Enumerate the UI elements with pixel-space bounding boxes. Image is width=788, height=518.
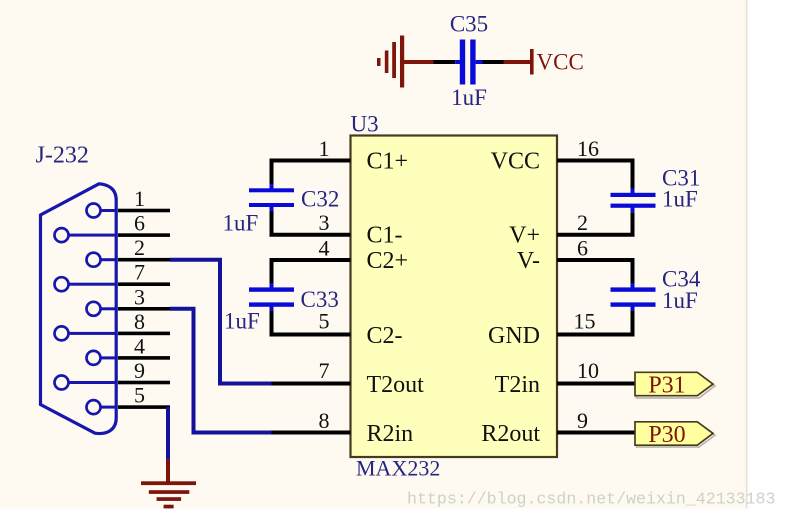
svg-text:R2out: R2out <box>481 421 540 447</box>
connector pin 4 <box>87 333 171 365</box>
svg-text:R2in: R2in <box>367 421 414 447</box>
svg-text:1uF: 1uF <box>224 309 260 334</box>
svg-text:1: 1 <box>134 186 145 211</box>
ground symbol GND (bottom) <box>141 481 196 508</box>
wire pin6 to C34 top <box>557 260 633 284</box>
svg-text:10: 10 <box>577 358 599 383</box>
wire C35 to VCC <box>483 60 504 64</box>
port P30 <box>635 422 715 448</box>
power ground symbol PGND (top left, horizontal) <box>377 36 404 88</box>
pin 15 GND <box>488 309 596 350</box>
svg-text:VCC: VCC <box>491 149 540 175</box>
pin 7 T2out <box>272 358 425 398</box>
svg-text:T2in: T2in <box>495 372 540 398</box>
svg-text:C32: C32 <box>301 187 339 212</box>
svg-text:GND: GND <box>488 323 540 349</box>
capacitor C35 <box>455 40 482 85</box>
connector pin 5 <box>87 383 171 415</box>
svg-text:C1+: C1+ <box>367 149 409 175</box>
pin 1 C1+ <box>319 136 409 175</box>
connector pin 3 <box>87 284 171 316</box>
pin 9 R2out <box>481 408 635 447</box>
connector pin 6 <box>55 211 171 243</box>
wire C34 bottom to pin15 <box>557 311 633 335</box>
svg-text:C2-: C2- <box>367 323 403 349</box>
connector pin 1 <box>87 186 171 218</box>
svg-text:2: 2 <box>134 235 145 260</box>
pin 6 V- <box>517 236 588 275</box>
svg-text:T2out: T2out <box>367 372 425 398</box>
svg-text:V-: V- <box>517 248 540 274</box>
svg-text:7: 7 <box>134 260 145 285</box>
port P31 <box>635 372 715 398</box>
pin 5 C2- <box>319 309 403 350</box>
svg-text:C33: C33 <box>301 287 339 312</box>
capacitor C32 <box>249 184 294 212</box>
wire C31 bottom to pin2 <box>557 212 633 235</box>
wire pin16 to C31 top <box>557 161 633 190</box>
svg-text:6: 6 <box>577 236 588 261</box>
IC U3 MAX232 body <box>351 136 558 458</box>
wire pin4 to C33 top <box>272 260 351 284</box>
svg-text:C35: C35 <box>450 12 488 37</box>
connector pin 9 <box>55 358 171 390</box>
svg-text:P31: P31 <box>648 373 685 399</box>
svg-text:16: 16 <box>577 136 599 161</box>
svg-text:2: 2 <box>577 210 588 235</box>
capacitor C33 <box>249 283 294 311</box>
power VCC (bar symbol + label) <box>504 49 584 75</box>
connector J-232 outline <box>41 184 117 434</box>
svg-text:V+: V+ <box>509 223 540 249</box>
svg-text:VCC: VCC <box>537 50 584 75</box>
wire J-232 pin3 to U3 R2in <box>170 309 272 433</box>
pin 10 T2in <box>495 358 635 398</box>
connector pin 7 <box>55 260 171 292</box>
pin 8 R2in <box>272 408 414 447</box>
svg-text:3: 3 <box>319 210 330 235</box>
svg-text:1uF: 1uF <box>662 288 698 313</box>
svg-text:1uF: 1uF <box>451 85 487 110</box>
connector pin 2 <box>87 235 171 267</box>
svg-text:6: 6 <box>134 211 145 236</box>
svg-text:C1-: C1- <box>367 223 403 249</box>
svg-text:1uF: 1uF <box>223 211 259 236</box>
svg-text:1: 1 <box>319 136 330 161</box>
wire ground to C35 <box>404 60 455 64</box>
pin 2 V+ <box>509 210 588 249</box>
capacitor C34 <box>611 283 656 311</box>
svg-text:U3: U3 <box>351 112 379 137</box>
svg-text:https://blog.csdn.net/weixin_4: https://blog.csdn.net/weixin_42133183 <box>407 490 775 509</box>
svg-text:5: 5 <box>319 309 330 334</box>
connector pin 8 <box>55 309 171 341</box>
svg-text:MAX232: MAX232 <box>356 456 440 481</box>
svg-text:1uF: 1uF <box>662 187 698 212</box>
wire pin1 to C32 top <box>272 161 351 185</box>
pin 16 VCC <box>491 136 599 175</box>
svg-text:4: 4 <box>134 333 145 358</box>
svg-text:8: 8 <box>319 408 330 433</box>
wire C33 bottom to pin5 <box>272 311 351 335</box>
wire J-232 pin5 to ground <box>166 407 170 482</box>
svg-text:3: 3 <box>134 284 145 309</box>
svg-text:9: 9 <box>134 358 145 383</box>
svg-text:8: 8 <box>134 309 145 334</box>
pin 3 C1- <box>319 210 403 249</box>
svg-text:P30: P30 <box>648 422 685 448</box>
svg-text:4: 4 <box>319 236 330 261</box>
svg-text:J-232: J-232 <box>36 143 89 169</box>
capacitor C31 <box>611 188 656 212</box>
svg-text:15: 15 <box>574 309 596 334</box>
svg-text:C2+: C2+ <box>367 248 409 274</box>
svg-text:7: 7 <box>319 358 330 383</box>
pin 4 C2+ <box>319 236 409 275</box>
svg-text:9: 9 <box>577 408 588 433</box>
svg-text:5: 5 <box>134 383 145 408</box>
wire J-232 pin2 to U3 T2out <box>170 260 272 384</box>
wire C32 bottom to pin3 <box>272 211 351 235</box>
